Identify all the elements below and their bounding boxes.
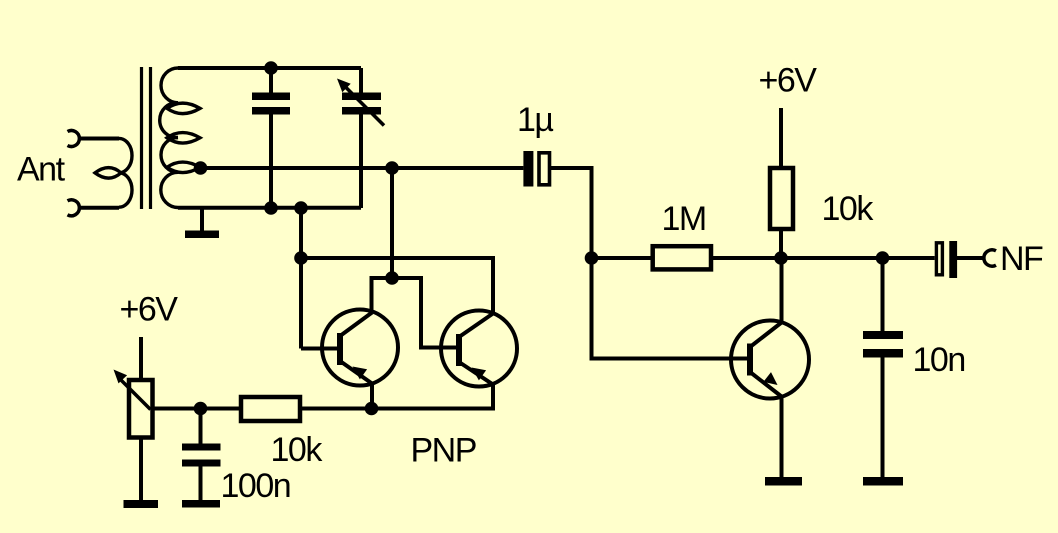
svg-text:1µ: 1µ — [517, 101, 553, 139]
capacitor C6 NF out electrolytic — [936, 243, 942, 275]
svg-text:Ant: Ant — [17, 151, 66, 189]
junction dot — [774, 251, 788, 265]
transformer core — [142, 67, 151, 209]
transformer secondary winding — [160, 68, 200, 208]
junction dot — [294, 251, 308, 265]
wire T2 emitter — [372, 385, 494, 409]
ground (transformer) — [200, 208, 204, 231]
wire to T3 base — [592, 258, 748, 359]
wire — [80, 137, 120, 141]
resistor R2 10k — [241, 397, 300, 421]
svg-text:100n: 100n — [221, 467, 291, 505]
capacitor C5 10n — [881, 258, 885, 477]
junction dot — [876, 251, 890, 265]
junction dot (tap) — [194, 161, 208, 175]
svg-text:+6V: +6V — [759, 62, 818, 100]
svg-text:1M: 1M — [662, 200, 706, 238]
junction dot — [385, 271, 399, 285]
capacitor C4 100n — [199, 409, 203, 501]
transistor T2 PNP — [441, 311, 517, 387]
wire — [779, 229, 783, 258]
junction dot — [385, 161, 399, 175]
wire emitter rail — [153, 407, 372, 411]
ground — [182, 500, 220, 508]
svg-text:+6V: +6V — [120, 291, 179, 329]
wire — [957, 256, 983, 260]
wire tank top rail — [178, 66, 361, 70]
wire T3 collector — [780, 258, 784, 323]
capacitor C1 fixed tank cap — [269, 68, 273, 208]
ground — [124, 500, 159, 508]
junction dot — [264, 61, 278, 75]
svg-text:10k: 10k — [822, 190, 875, 228]
wire — [551, 168, 592, 258]
junction dot — [264, 201, 278, 215]
wire down from tap — [390, 168, 394, 278]
antenna terminal top — [68, 131, 80, 147]
wire to T2 base — [392, 278, 456, 348]
junction dot — [365, 402, 379, 416]
wire T1 base lead — [301, 347, 337, 351]
transistor T3 NPN — [731, 321, 809, 399]
antenna terminal bottom — [68, 200, 80, 216]
wire — [779, 108, 783, 168]
ground — [863, 477, 903, 486]
wire cross-couple to T2 collector — [301, 258, 493, 313]
wire — [80, 206, 120, 210]
wire tank bottom rail — [178, 206, 361, 210]
svg-text:PNP: PNP — [411, 432, 476, 470]
wire T1 emitter — [370, 384, 374, 409]
wire — [711, 256, 935, 260]
junction dot — [585, 251, 599, 265]
wire — [139, 337, 143, 380]
wire T3 emitter — [780, 397, 784, 478]
variable capacitor C2 — [359, 68, 363, 208]
wire coil tap to coupling cap — [201, 166, 524, 170]
capacitor C3 1u electrolytic — [523, 151, 533, 187]
potentiometer R1 — [129, 380, 153, 438]
NF terminal — [984, 250, 996, 266]
wire — [592, 256, 653, 260]
wire to T1 collector — [372, 278, 393, 312]
transformer primary winding — [95, 138, 132, 207]
svg-text:NF: NF — [1000, 240, 1043, 278]
transistor T1 PNP — [322, 310, 398, 386]
wire — [139, 438, 143, 501]
junction dot — [294, 201, 308, 215]
ground — [765, 477, 802, 486]
junction dot — [194, 402, 208, 416]
svg-text:10k: 10k — [271, 431, 324, 469]
svg-text:10n: 10n — [913, 341, 965, 379]
resistor R4 10k — [770, 168, 793, 229]
resistor R5 1M — [653, 246, 711, 269]
wire bottom rail to cross-couple node — [299, 208, 303, 349]
